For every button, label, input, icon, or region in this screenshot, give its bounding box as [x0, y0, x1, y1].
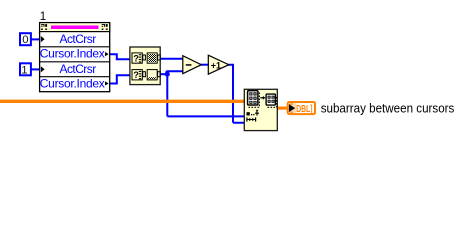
- title ?! glyph right: [102, 24, 108, 30]
- Max&Min beaker min empty (bottom-right): [147, 70, 160, 80]
- svg-text:1: 1: [21, 64, 27, 76]
- svg-text:Cursor.Index: Cursor.Index: [40, 77, 105, 91]
- row4 Cursor.Index text: [40, 77, 105, 91]
- svg-text:1: 1: [40, 11, 46, 23]
- wire from constant 1 to ActCrsr row3: [30, 68, 40, 70]
- svg-text:DBL]: DBL]: [296, 103, 312, 115]
- wire junction to subtract bottom input: [166, 71, 183, 74]
- Max&Min beaker y-question (bottom-left): [132, 70, 145, 81]
- Array Subset big array icon: [248, 91, 260, 108]
- row2 Cursor.Index text: [40, 47, 105, 61]
- svg-text:Cursor.Index: Cursor.Index: [40, 47, 105, 61]
- svg-text:ActCrsr: ActCrsr: [60, 32, 97, 46]
- increment +1 node: [208, 55, 229, 74]
- property node frame: [40, 23, 110, 92]
- svg-text:+1: +1: [211, 60, 221, 70]
- orange subarray output wire to DBL indicator: [277, 106, 288, 109]
- svg-text:0: 0: [22, 34, 28, 46]
- svg-text:ActCrsr: ActCrsr: [60, 62, 97, 76]
- Array Subset length glyph: [247, 117, 256, 121]
- wire Max&Min max output to subtract top input: [160, 58, 184, 60]
- row4 output arrow: [105, 81, 109, 85]
- wire Cursor.Index row2 to Max&Min top input: [110, 54, 132, 59]
- title ?! glyph left: [41, 24, 47, 30]
- wire subtract output to +1 input: [200, 64, 209, 66]
- row1 ActCrsr text: [60, 32, 97, 46]
- Max & Min node frame: [130, 47, 160, 85]
- junction dot: [165, 72, 170, 77]
- Max&Min beaker max full (top-right): [147, 53, 160, 63]
- numeric constant 1: [20, 63, 31, 76]
- wire junction down to Array Subset index input: [167, 74, 245, 116]
- wire +1 output down to Array Subset length input: [228, 65, 246, 123]
- property node title magenta bar: [51, 26, 99, 30]
- Array Subset node frame: [244, 89, 277, 130]
- subtract node: [183, 56, 202, 74]
- Array Subset arrow glyph: [260, 96, 265, 100]
- row2 output arrow: [105, 52, 109, 56]
- free label 1: [40, 11, 46, 23]
- Array Subset index glyph: [247, 109, 260, 115]
- row1 input arrow: [41, 36, 45, 42]
- indicator label: subarray between cursors: [321, 101, 455, 115]
- Array Subset small array icon: [266, 94, 277, 107]
- row3 ActCrsr text: [60, 62, 97, 76]
- wire from constant 0 to ActCrsr row1: [30, 38, 40, 40]
- numeric constant 0: [20, 33, 31, 46]
- svg-text:?: ?: [133, 54, 139, 64]
- DBL array indicator terminal: [288, 102, 315, 114]
- Max&Min beaker x-question (top-left): [132, 53, 145, 64]
- svg-text:subarray between cursors: subarray between cursors: [321, 101, 455, 115]
- svg-text:?: ?: [133, 70, 139, 80]
- orange array wire into Array Subset: [0, 100, 245, 103]
- wire Max&Min min output to junction: [160, 73, 167, 75]
- wire Cursor.Index row4 to Max&Min bottom input: [110, 75, 132, 83]
- row3 input arrow: [41, 66, 45, 72]
